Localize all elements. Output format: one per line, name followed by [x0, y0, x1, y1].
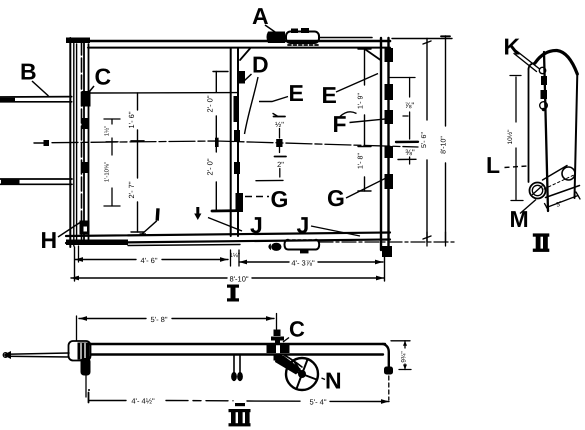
pointer I (first)	[155, 208, 159, 220]
svg-text:C: C	[289, 317, 305, 342]
dim line horizontal y93	[91, 92, 239, 94]
right post brackets	[385, 48, 394, 62]
roman numeral III	[229, 409, 251, 426]
dim 5-6 vertical	[426, 39, 428, 121]
dim small right x410	[390, 77, 415, 79]
hinge bracket H on post	[80, 221, 90, 235]
centerline	[34, 142, 44, 144]
middle post	[230, 48, 232, 236]
K leader double	[516, 51, 539, 69]
svg-text:J: J	[297, 212, 310, 238]
left post	[69, 38, 71, 247]
pointer I (second, arrow)	[196, 207, 199, 214]
dim 4-4 / 5-4 bottom	[88, 393, 90, 403]
svg-text:1⅛": 1⅛"	[230, 252, 240, 259]
svg-text:4'- 6": 4'- 6"	[140, 256, 157, 265]
corner brace middle	[240, 49, 250, 61]
latch rod top	[319, 37, 372, 39]
svg-text:5'- 4": 5'- 4"	[309, 398, 326, 407]
lower strap	[0, 178, 72, 180]
mid legs	[233, 355, 235, 373]
post channel left edge	[528, 69, 530, 182]
svg-text:½": ½"	[275, 120, 284, 129]
caster fork	[275, 356, 301, 375]
corner brace right	[364, 49, 381, 61]
top extension to height dims	[392, 38, 452, 40]
svg-text:8'-10": 8'-10"	[229, 275, 248, 284]
svg-text:2'- 0": 2'- 0"	[206, 95, 215, 112]
svg-text:N: N	[325, 368, 342, 394]
pipe far end	[562, 167, 575, 180]
svg-text:D: D	[252, 52, 269, 78]
dim 1-9 / 1-8 right leaf vertical	[364, 49, 366, 85]
svg-text:1'- 6": 1'- 6"	[127, 111, 136, 128]
wheel	[286, 358, 318, 390]
svg-text:B: B	[20, 59, 37, 85]
post keeper 2	[82, 118, 89, 129]
svg-text:⅜": ⅜"	[405, 148, 415, 157]
svg-text:2'- 0": 2'- 0"	[206, 158, 215, 175]
block foot	[81, 358, 91, 376]
svg-text:J: J	[250, 212, 263, 238]
svg-text:1'-10⅝": 1'-10⅝"	[104, 162, 111, 182]
post dome top	[529, 63, 536, 69]
svg-text:5'- 6": 5'- 6"	[421, 132, 428, 148]
svg-text:9¾": 9¾"	[401, 351, 408, 363]
svg-text:H: H	[41, 227, 58, 253]
svg-text:E: E	[289, 80, 304, 106]
hinge bracket C on post	[82, 91, 91, 107]
svg-text:M: M	[510, 206, 529, 232]
dim 5-8	[79, 318, 146, 320]
dim 10 vertical view II	[515, 77, 517, 122]
svg-text:F: F	[333, 111, 347, 137]
dim 5-10 vertical	[445, 36, 447, 126]
bottom rail	[66, 233, 390, 237]
svg-text:4'- 3⅞": 4'- 3⅞"	[291, 259, 315, 268]
top strap B	[0, 96, 72, 98]
svg-text:10½": 10½"	[507, 129, 514, 145]
right post	[380, 38, 382, 250]
svg-text:8'-10": 8'-10"	[441, 136, 448, 154]
roman numeral II	[533, 233, 550, 252]
svg-text:4'- 4½": 4'- 4½"	[131, 397, 155, 406]
caster bolt	[274, 330, 281, 337]
svg-text:G: G	[271, 186, 289, 212]
dim 1-10 inner vertical	[111, 119, 113, 124]
dim 4-6 bottom	[74, 247, 76, 281]
beam right end	[383, 344, 389, 370]
svg-text:1'- 9": 1'- 9"	[358, 93, 365, 109]
latch J assembly (bottom)	[285, 240, 320, 250]
svg-text:2": 2"	[277, 160, 284, 169]
ground dash	[235, 403, 245, 406]
svg-text:⅞": ⅞"	[405, 101, 415, 110]
dim 2'-0 double vertical	[215, 72, 217, 93]
top rail	[68, 40, 390, 43]
beam	[87, 343, 385, 345]
dim 1-6 / 2-7 vertical	[137, 93, 139, 110]
svg-text:L: L	[486, 152, 500, 178]
left end block	[69, 341, 91, 361]
dim 8-10 bottom	[71, 277, 227, 279]
dim 4-3 bottom	[239, 261, 289, 263]
roman numeral I	[227, 285, 239, 302]
latch A assembly	[267, 32, 286, 44]
dim small fractions near middle post	[274, 116, 286, 118]
hinge spike	[6, 353, 69, 354]
svg-text:C: C	[95, 64, 112, 90]
pipe sleeve ringed circle	[530, 183, 546, 199]
svg-text:G: G	[327, 185, 345, 211]
svg-text:1'- 8": 1'- 8"	[358, 153, 365, 169]
svg-text:2'- 7": 2'- 7"	[127, 181, 136, 198]
latch rod bottom	[319, 241, 455, 243]
post channel right edge	[575, 74, 578, 198]
caster bracket	[267, 345, 277, 354]
svg-text:5'- 8": 5'- 8"	[150, 315, 167, 324]
svg-text:E: E	[322, 82, 337, 108]
VIEW III : plan/bottom view	[77, 314, 277, 343]
right small dim	[391, 340, 410, 342]
svg-text:1½": 1½"	[104, 126, 111, 136]
post keeper 3	[82, 162, 89, 173]
post channel middle edge	[544, 52, 548, 211]
bolt detail	[539, 67, 545, 73]
svg-text:K: K	[504, 34, 521, 60]
dim 3 small	[547, 196, 579, 208]
VIEW II : hinge post detail	[510, 50, 580, 211]
